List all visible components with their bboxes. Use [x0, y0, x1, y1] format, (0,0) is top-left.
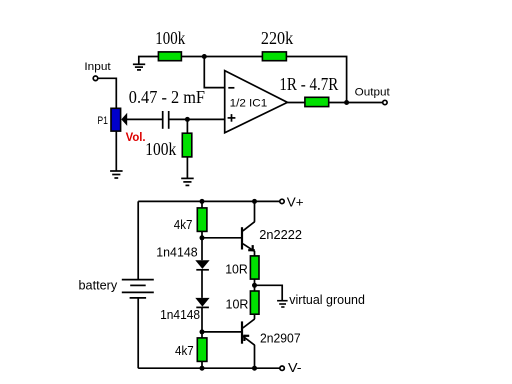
op-amp minus sign: [228, 87, 234, 89]
ground virtual: [277, 301, 288, 307]
wire junction down to 100k: [186, 119, 188, 133]
wire base node down to diodes: [201, 238, 203, 260]
svg-text:100k: 100k: [155, 28, 185, 48]
resistor 100k (top): [158, 52, 181, 61]
svg-text:4k7: 4k7: [174, 217, 193, 232]
diode D2 1n4148: [195, 298, 209, 308]
left rail battery to bottom: [137, 298, 139, 368]
svg-text:1/2 IC1: 1/2 IC1: [230, 98, 268, 110]
capacitor C1: [163, 111, 169, 129]
resistor 4k7 (top): [197, 208, 207, 232]
svg-text:Vol.: Vol.: [126, 130, 146, 144]
svg-text:Output: Output: [355, 87, 391, 99]
V- terminal: [280, 366, 284, 370]
resistor 10R (lower): [250, 291, 259, 314]
output terminal: [383, 100, 387, 104]
ground under P1: [110, 171, 123, 178]
op-amp U1 1/2 IC1: [225, 71, 288, 133]
resistor 220k: [262, 52, 286, 61]
top rail V+: [138, 200, 280, 202]
svg-text:Input: Input: [84, 61, 111, 73]
input terminal: [93, 76, 98, 81]
diode D1 1n4148: [195, 260, 209, 270]
left rail down to battery: [137, 201, 139, 279]
wire capacitor to op-amp + input: [170, 118, 225, 120]
resistor 100k (vertical, to ground): [182, 133, 192, 157]
wire 4k7 to bottom rail: [201, 361, 203, 368]
pot wiper arrow: [121, 113, 127, 126]
wire node to 2n2907 base: [202, 331, 241, 333]
node junction cap/100k: [185, 117, 190, 122]
wire pot bottom to ground: [115, 131, 117, 171]
wire junction to inverting input: [204, 57, 224, 88]
svg-text:10R: 10R: [226, 297, 249, 312]
node 4k7 bottom junction: [200, 366, 205, 371]
svg-text:4k7: 4k7: [175, 343, 194, 358]
node 4k7 top junction: [200, 199, 205, 204]
resistor 1R-4.7R: [305, 97, 329, 106]
svg-text:2n2907: 2n2907: [260, 330, 301, 345]
wire node to virtual ground symbol: [255, 285, 283, 300]
ground at 100k feedback (top left): [133, 64, 145, 70]
wire 100k to junction: [181, 56, 262, 58]
transistor Q2 2n2907: [242, 319, 255, 345]
svg-text:1R - 4.7R: 1R - 4.7R: [279, 74, 338, 94]
wire 10R to 2n2907 emitter: [254, 314, 256, 319]
node collector bottom junction: [252, 366, 257, 371]
svg-text:V-: V-: [288, 360, 302, 375]
svg-text:2n2222: 2n2222: [259, 227, 302, 242]
op-amp plus sign: [228, 114, 236, 122]
wire 100k to ground: [186, 157, 188, 178]
wire D1 to D2: [201, 270, 203, 298]
wire emitter to 10R: [254, 251, 256, 256]
svg-text:0.47 - 2 mF: 0.47 - 2 mF: [129, 87, 205, 107]
svg-text:V+: V+: [287, 195, 304, 210]
wire resistor to output: [329, 102, 383, 104]
svg-text:220k: 220k: [261, 28, 294, 48]
ground under 100k: [181, 178, 194, 185]
svg-text:P1: P1: [97, 115, 108, 127]
node base 2n2222: [200, 235, 205, 240]
wire op-amp output: [287, 102, 305, 104]
wire 4k7 to base node: [201, 231, 203, 237]
node virtual ground: [252, 283, 257, 288]
svg-text:1n4148: 1n4148: [160, 307, 200, 322]
node collector top junction: [252, 199, 257, 204]
resistor 4k7 (bottom): [197, 338, 207, 362]
resistor 10R (upper): [250, 256, 259, 279]
transistor Q1 2n2222: [242, 222, 255, 252]
svg-text:1n4148: 1n4148: [156, 245, 197, 260]
wire collector to bottom rail: [254, 345, 256, 368]
node junction inverting: [202, 54, 207, 59]
wire 220k to output node: [286, 57, 346, 103]
wire top rail to 4k7: [201, 201, 203, 208]
wire D2 to base node 2: [201, 307, 203, 338]
potentiometer P1: [111, 108, 121, 131]
wire collector to top rail: [254, 201, 256, 222]
svg-text:100k: 100k: [145, 139, 176, 159]
V+ terminal: [280, 199, 284, 203]
wire 10R to mid node: [254, 279, 256, 291]
battery B1: [122, 280, 154, 298]
wire input to pot: [98, 78, 116, 108]
svg-text:virtual ground: virtual ground: [289, 292, 365, 307]
wire ground to 100k resistor: [139, 57, 159, 65]
node output junction: [344, 100, 349, 105]
bottom rail V-: [138, 367, 280, 369]
svg-text:10R: 10R: [225, 262, 248, 277]
wire node to 2n2222 base: [202, 237, 241, 239]
node base 2n2907: [200, 329, 205, 334]
svg-text:battery: battery: [79, 277, 118, 292]
wire wiper to capacitor: [127, 118, 162, 120]
